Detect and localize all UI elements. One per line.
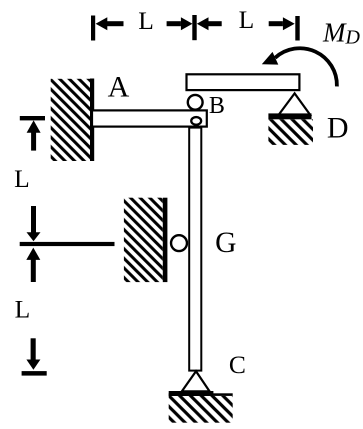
svg-text:L: L: [239, 5, 255, 34]
top dimension right tick: [295, 16, 299, 41]
horizontal member A-B: [92, 110, 207, 126]
ground bar at D: [268, 113, 311, 119]
top dimension left arrow of right span (points left): [197, 17, 209, 30]
left dimension down arrow 2: [31, 338, 36, 360]
middle wall hatch: [124, 198, 163, 282]
left dimension middle line: [20, 242, 115, 246]
top dimension left tick: [91, 16, 95, 41]
svg-text:L: L: [14, 164, 30, 193]
svg-text:D: D: [345, 27, 361, 49]
svg-text:M: M: [322, 18, 347, 48]
left dimension up arrow 2: [26, 248, 40, 260]
left dimension top tick: [20, 116, 45, 120]
left dimension up arrow 1: [27, 120, 41, 132]
left wall face bar: [90, 79, 94, 162]
ground hatch at D: [268, 119, 313, 145]
svg-text:G: G: [215, 227, 236, 259]
top dimension middle tick: [192, 15, 196, 40]
pin support C triangle: [182, 371, 210, 391]
pin support D triangle: [279, 93, 310, 114]
svg-text:L: L: [138, 6, 154, 35]
ground bar at C: [169, 391, 214, 396]
ground hatch top edge at C: [169, 393, 233, 396]
svg-text:C: C: [229, 350, 246, 379]
pin ellipse joining member A-B to member G: [191, 117, 201, 125]
top dimension left arrow (points left): [96, 17, 108, 30]
svg-text:B: B: [209, 93, 225, 119]
ground hatch at C: [169, 396, 233, 423]
left dimension down arrow 1: [31, 206, 36, 233]
top dimension right arrow of left span (points right): [167, 21, 181, 26]
roller circle between middle wall and member G: [171, 235, 187, 251]
middle wall face bar: [163, 198, 168, 282]
left dimension bottom tick: [22, 371, 47, 376]
svg-text:A: A: [108, 71, 130, 104]
top dimension right arrow (points right): [269, 21, 283, 26]
svg-text:L: L: [15, 295, 31, 324]
left wall hatch at A: [51, 79, 90, 161]
pin circle B: [188, 95, 203, 110]
svg-text:D: D: [327, 112, 349, 145]
vertical member G: [189, 128, 201, 371]
moment arc arrow M_D (counterclockwise): [275, 48, 337, 86]
top beam B-D: [187, 74, 300, 90]
